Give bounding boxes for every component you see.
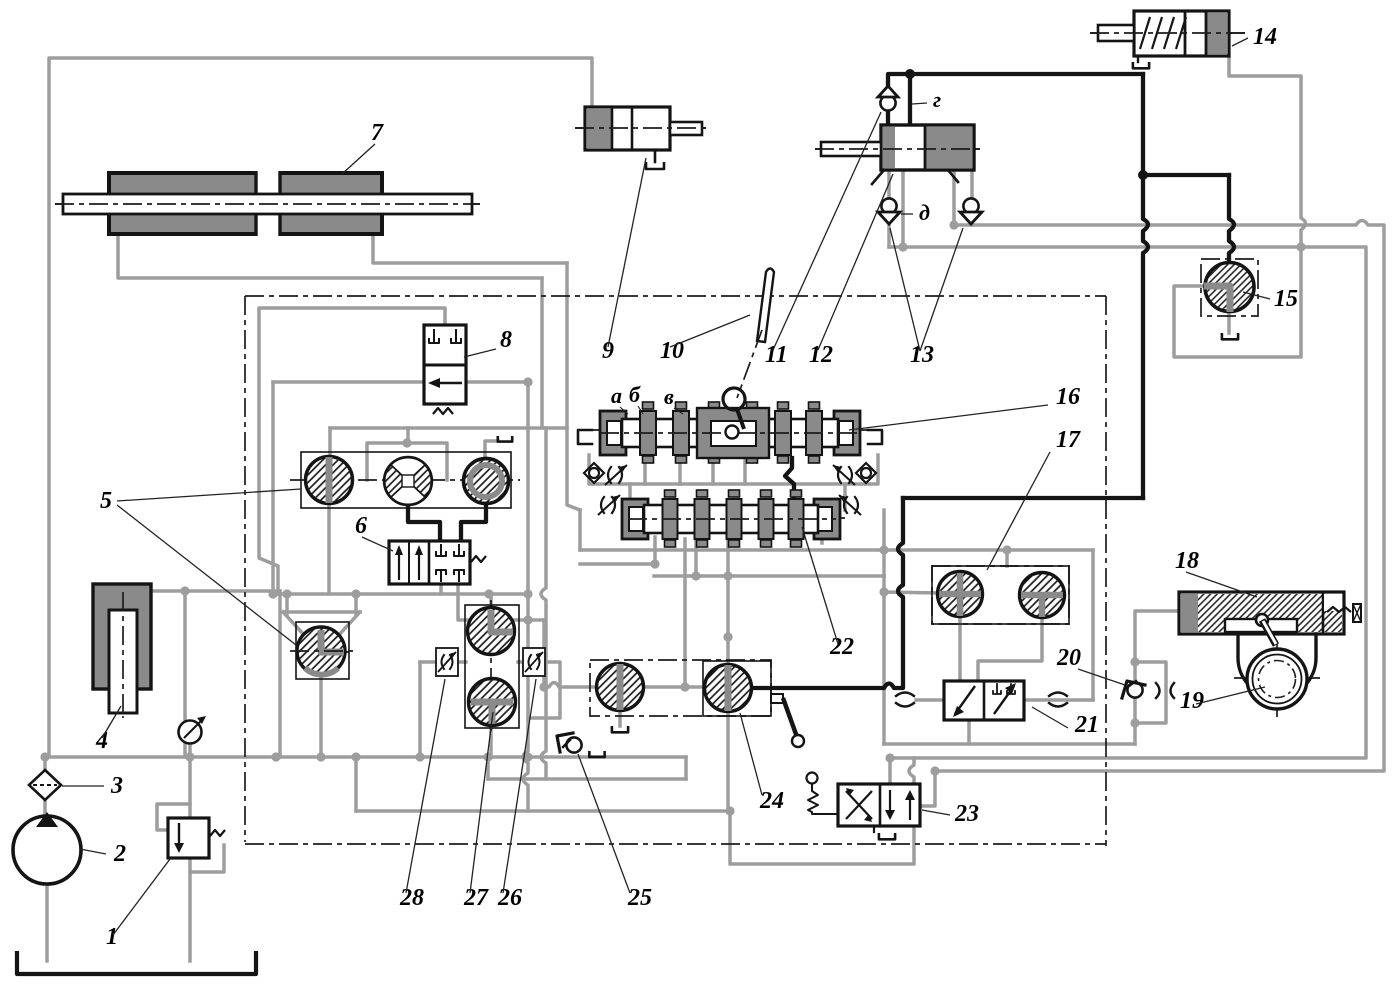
svg-text:11: 11 (765, 342, 788, 368)
svg-text:27: 27 (463, 885, 489, 911)
svg-text:22: 22 (829, 634, 854, 660)
svg-text:21: 21 (1074, 712, 1099, 738)
svg-text:а: а (611, 383, 622, 408)
svg-text:6: 6 (355, 513, 367, 539)
svg-text:8: 8 (500, 327, 512, 353)
svg-text:1: 1 (106, 924, 118, 950)
svg-text:17: 17 (1056, 427, 1081, 453)
svg-text:3: 3 (110, 773, 123, 799)
svg-text:26: 26 (497, 885, 522, 911)
svg-text:14: 14 (1253, 24, 1277, 50)
svg-text:5: 5 (100, 488, 112, 514)
svg-text:24: 24 (759, 788, 784, 814)
svg-text:28: 28 (399, 885, 424, 911)
svg-text:23: 23 (954, 801, 979, 827)
svg-text:в: в (664, 384, 674, 409)
svg-text:16: 16 (1056, 384, 1080, 410)
svg-text:15: 15 (1274, 286, 1298, 312)
svg-text:9: 9 (602, 338, 614, 364)
svg-text:25: 25 (627, 885, 652, 911)
svg-text:12: 12 (809, 342, 833, 368)
svg-text:2: 2 (113, 841, 126, 867)
svg-text:б: б (629, 382, 641, 407)
svg-text:д: д (919, 200, 930, 225)
svg-text:г: г (933, 87, 941, 112)
svg-text:18: 18 (1175, 548, 1199, 574)
svg-text:10: 10 (660, 338, 684, 364)
svg-text:20: 20 (1056, 645, 1081, 671)
svg-text:19: 19 (1180, 688, 1204, 714)
svg-text:7: 7 (371, 120, 384, 146)
